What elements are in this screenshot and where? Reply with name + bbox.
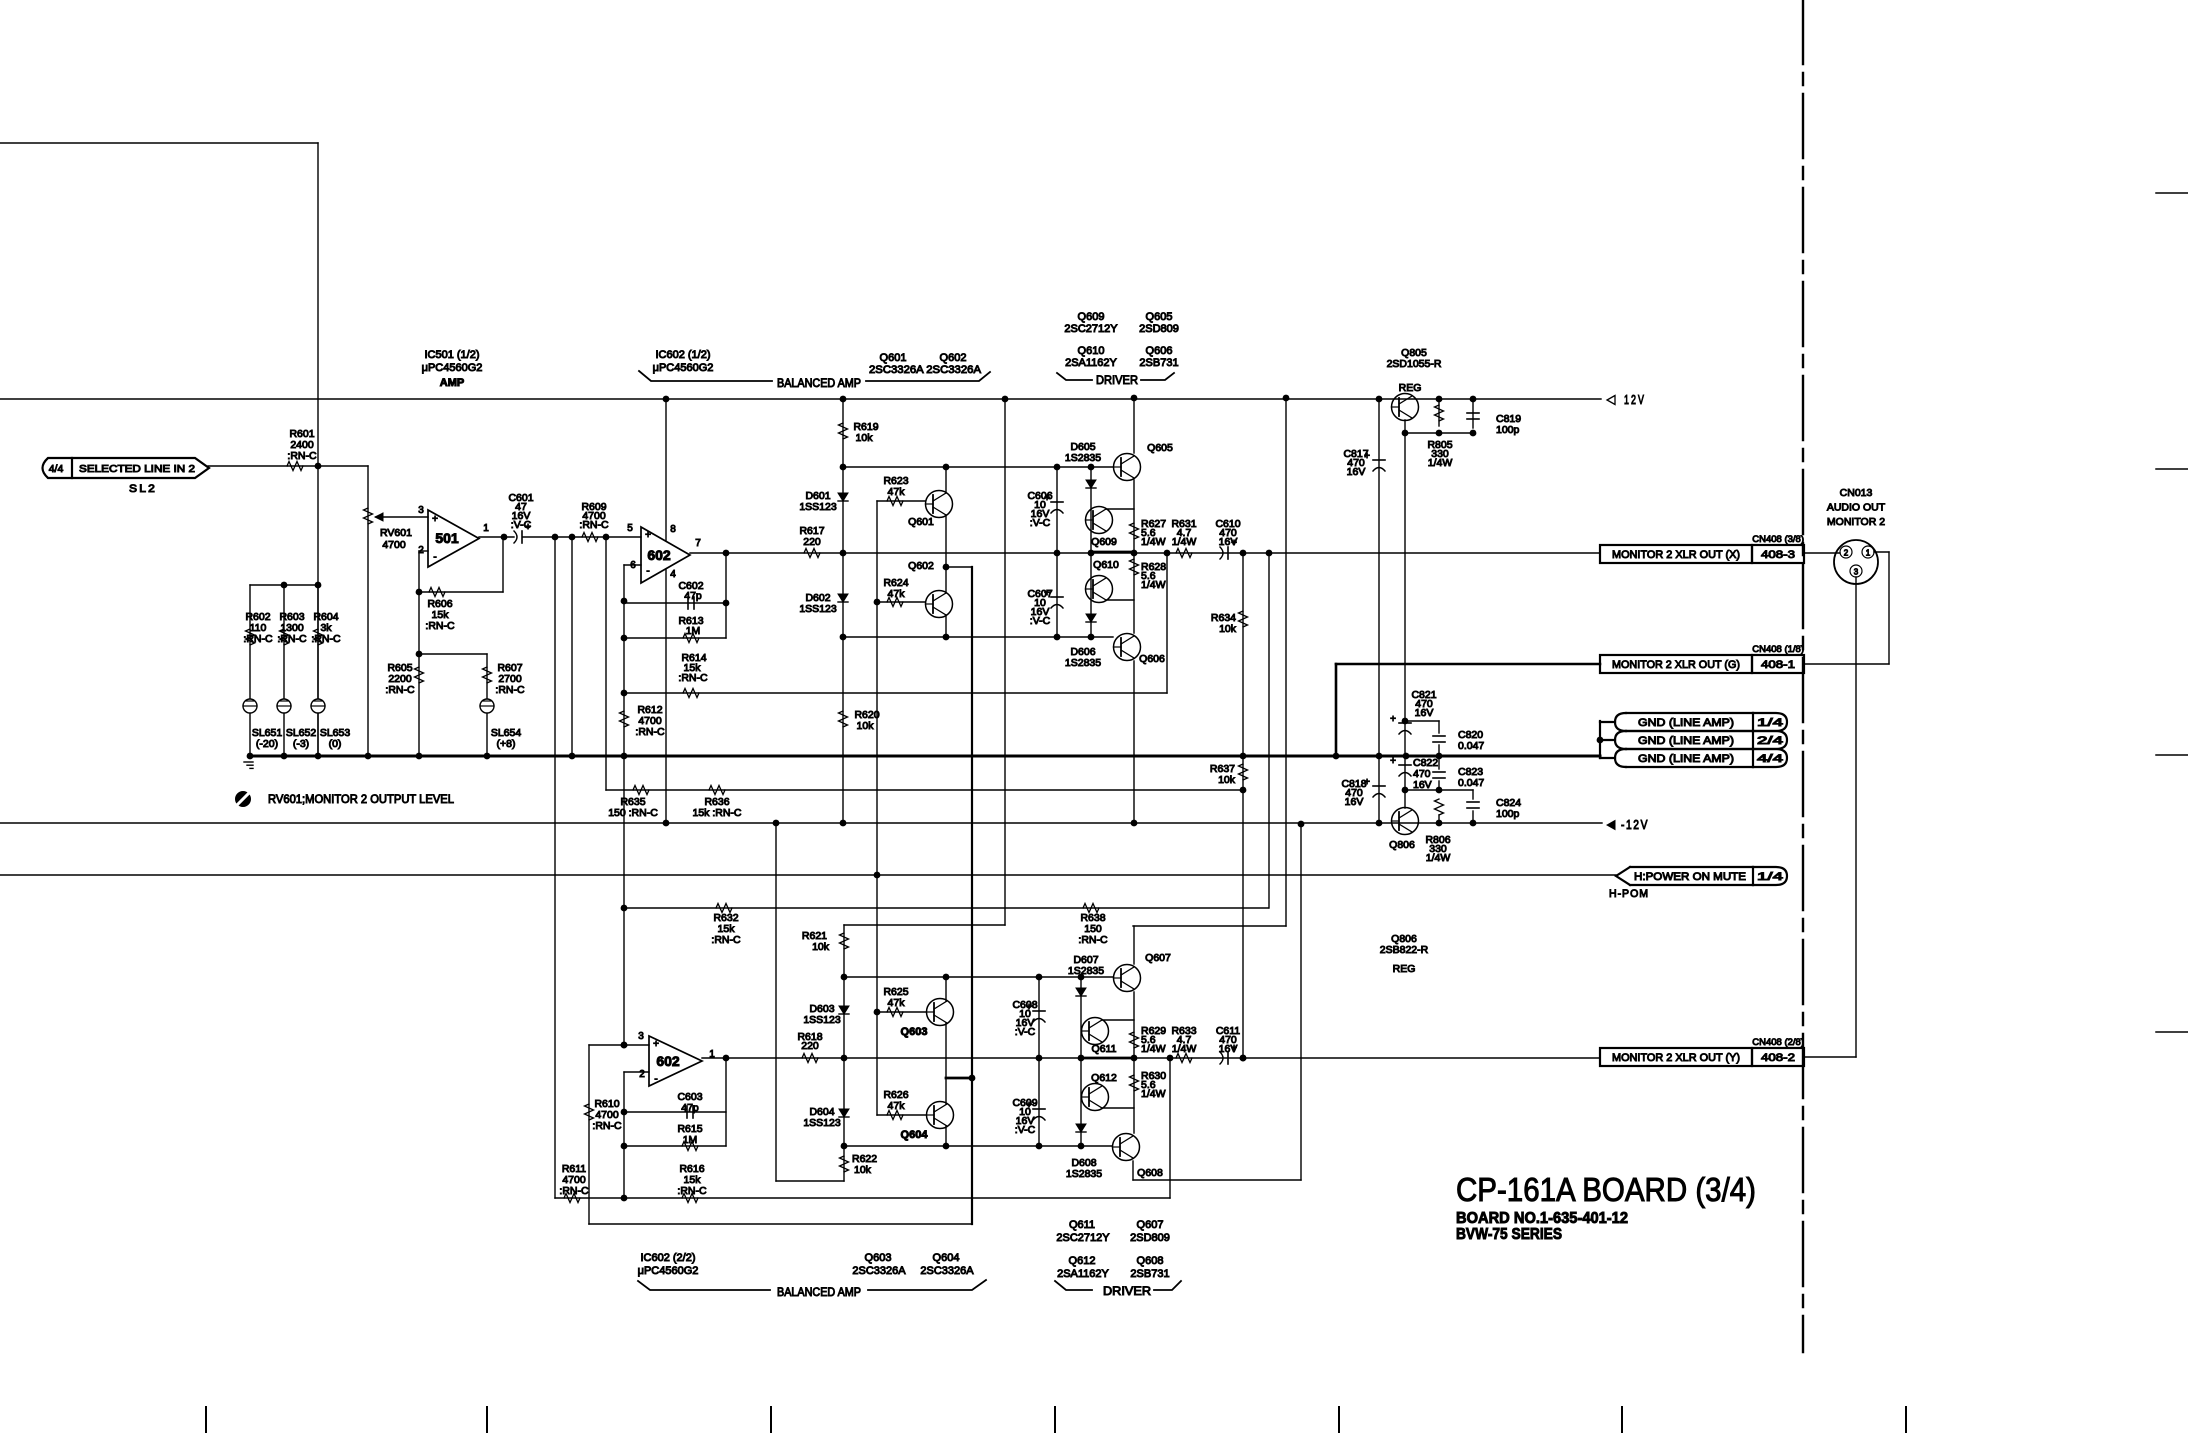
svg-text:47p: 47p — [681, 1102, 699, 1114]
svg-text:100p: 100p — [1496, 808, 1520, 820]
svg-text::V-C: :V-C — [1030, 615, 1051, 627]
svg-text::RN-C: :RN-C — [592, 1120, 622, 1132]
svg-text:2/4: 2/4 — [1757, 735, 1783, 747]
svg-text::RN-C: :RN-C — [559, 1185, 589, 1197]
svg-text::RN-C: :RN-C — [711, 934, 741, 946]
svg-text:Q806: Q806 — [1389, 839, 1415, 851]
svg-text:16V: 16V — [1413, 779, 1432, 791]
svg-text:+: + — [1231, 1043, 1237, 1054]
svg-text:+: + — [1231, 538, 1237, 549]
svg-text:0.047: 0.047 — [1458, 777, 1484, 789]
svg-text:AMP: AMP — [440, 377, 464, 389]
svg-text:+: + — [432, 514, 438, 525]
svg-text:(0): (0) — [329, 738, 342, 750]
svg-text::RN-C: :RN-C — [495, 684, 525, 696]
svg-text:1/4W: 1/4W — [1141, 1088, 1166, 1100]
svg-text:Q607: Q607 — [1137, 1219, 1164, 1231]
svg-text:+: + — [645, 530, 651, 541]
svg-text:1S2835: 1S2835 — [1066, 1168, 1102, 1180]
svg-text:2SC2712Y: 2SC2712Y — [1056, 1232, 1110, 1244]
svg-text:2: 2 — [1844, 549, 1849, 558]
svg-text:Q601: Q601 — [880, 352, 907, 364]
svg-text:GND (LINE AMP): GND (LINE AMP) — [1638, 717, 1734, 729]
svg-text:2SD1055-R: 2SD1055-R — [1387, 358, 1442, 370]
svg-text::RN-C: :RN-C — [425, 620, 455, 632]
svg-text::V-C: :V-C — [1030, 517, 1051, 529]
svg-text::RN-C: :RN-C — [385, 684, 415, 696]
svg-text:2SB731: 2SB731 — [1139, 357, 1178, 369]
svg-text:10k: 10k — [1218, 774, 1236, 786]
svg-text:12V: 12V — [1624, 392, 1646, 407]
svg-text:RV601: RV601 — [380, 527, 412, 539]
svg-text:10k: 10k — [1219, 623, 1237, 635]
svg-text:Q608: Q608 — [1137, 1167, 1163, 1179]
svg-text:CN013: CN013 — [1840, 487, 1873, 499]
svg-text:H-POM: H-POM — [1609, 888, 1649, 900]
svg-text:3: 3 — [638, 1031, 644, 1042]
svg-text:Q610: Q610 — [1093, 559, 1119, 571]
svg-text:16V: 16V — [1347, 466, 1366, 478]
svg-text:Q610: Q610 — [1078, 345, 1105, 357]
svg-text:1/4W: 1/4W — [1141, 536, 1166, 548]
svg-text:+: + — [1390, 756, 1396, 767]
svg-text:Q609: Q609 — [1078, 311, 1105, 323]
svg-text:1/4W: 1/4W — [1141, 579, 1166, 591]
svg-text:1: 1 — [483, 523, 489, 534]
svg-text:47k: 47k — [888, 997, 906, 1009]
svg-text:1M: 1M — [683, 1134, 698, 1146]
svg-text:2SD809: 2SD809 — [1139, 323, 1179, 335]
svg-text:1/4W: 1/4W — [1172, 1043, 1197, 1055]
svg-text:7: 7 — [695, 538, 701, 549]
svg-text:Q602: Q602 — [908, 560, 934, 572]
svg-text:CN408 (1/8): CN408 (1/8) — [1752, 644, 1804, 655]
svg-text:2SB822-R: 2SB822-R — [1380, 944, 1429, 956]
svg-text:1S2835: 1S2835 — [1068, 965, 1104, 977]
svg-text:MONITOR 2: MONITOR 2 — [1827, 516, 1885, 528]
svg-text:Q605: Q605 — [1147, 442, 1173, 454]
svg-text:16V: 16V — [1345, 796, 1364, 808]
svg-text:SELECTED LINE IN 2: SELECTED LINE IN 2 — [79, 463, 195, 475]
svg-text:Q611: Q611 — [1092, 1043, 1117, 1055]
svg-text:MONITOR 2 XLR OUT (X): MONITOR 2 XLR OUT (X) — [1612, 549, 1740, 561]
svg-text:μPC4560G2: μPC4560G2 — [653, 362, 714, 374]
svg-text:10k: 10k — [812, 941, 830, 953]
svg-text::RN-C: :RN-C — [635, 726, 665, 738]
svg-text:10k: 10k — [857, 720, 875, 732]
svg-text:2SC3326A: 2SC3326A — [920, 1265, 974, 1277]
svg-text:-: - — [433, 552, 436, 563]
svg-text:+: + — [1390, 714, 1396, 725]
svg-text:4/4: 4/4 — [1757, 753, 1783, 765]
svg-text:4/4: 4/4 — [49, 463, 64, 475]
svg-text:4: 4 — [670, 569, 676, 580]
svg-text::RN-C: :RN-C — [277, 633, 307, 645]
svg-text::V-C: :V-C — [1015, 1124, 1036, 1136]
svg-text::RN-C: :RN-C — [677, 1185, 707, 1197]
svg-text:BALANCED AMP: BALANCED AMP — [777, 1285, 861, 1299]
svg-text::RN-C: :RN-C — [243, 633, 273, 645]
svg-text:AUDIO OUT: AUDIO OUT — [1827, 502, 1886, 514]
svg-text::V-C: :V-C — [511, 519, 532, 531]
svg-text:8: 8 — [670, 524, 676, 535]
svg-text:Q601: Q601 — [908, 516, 934, 528]
svg-text:IC602 (2/2): IC602 (2/2) — [640, 1252, 695, 1264]
svg-text:RV601;MONITOR 2 OUTPUT LEVEL: RV601;MONITOR 2 OUTPUT LEVEL — [268, 792, 454, 806]
svg-text:220: 220 — [803, 536, 821, 548]
svg-text:47p: 47p — [684, 590, 702, 602]
svg-text:2SC3326A 2SC3326A: 2SC3326A 2SC3326A — [869, 364, 982, 376]
svg-text::RN-C: :RN-C — [678, 672, 708, 684]
svg-text:3: 3 — [1854, 568, 1859, 577]
svg-text:3: 3 — [418, 505, 424, 516]
svg-text:(+8): (+8) — [497, 738, 516, 750]
svg-text:47k: 47k — [888, 486, 906, 498]
svg-text:DRIVER: DRIVER — [1096, 373, 1138, 387]
svg-text:REG: REG — [1399, 382, 1422, 394]
svg-text:501: 501 — [435, 530, 459, 546]
svg-text:Q604: Q604 — [933, 1252, 960, 1264]
svg-text:1SS123: 1SS123 — [803, 1117, 841, 1129]
svg-text:1/4W: 1/4W — [1141, 1043, 1166, 1055]
svg-text:1/4: 1/4 — [1757, 717, 1783, 729]
svg-text:CN408 (2/8): CN408 (2/8) — [1752, 1037, 1804, 1048]
svg-text:μPC4560G2: μPC4560G2 — [638, 1265, 699, 1277]
svg-text:Q604: Q604 — [901, 1129, 929, 1141]
svg-text:Q603: Q603 — [901, 1026, 928, 1038]
svg-text:0.047: 0.047 — [1458, 740, 1484, 752]
svg-text:1S2835: 1S2835 — [1065, 657, 1101, 669]
svg-text:16V: 16V — [1415, 707, 1434, 719]
svg-text:5: 5 — [627, 523, 633, 534]
svg-text:100p: 100p — [1496, 424, 1520, 436]
svg-text:H:POWER ON MUTE: H:POWER ON MUTE — [1634, 871, 1746, 883]
svg-text:1/4W: 1/4W — [1172, 536, 1197, 548]
svg-text::RN-C: :RN-C — [579, 519, 609, 531]
svg-text:1SS123: 1SS123 — [803, 1014, 841, 1026]
svg-text:IC602 (1/2): IC602 (1/2) — [655, 349, 710, 361]
svg-text:47k: 47k — [888, 1100, 906, 1112]
svg-text:MONITOR 2 XLR OUT (Y): MONITOR 2 XLR OUT (Y) — [1612, 1052, 1740, 1064]
svg-text:150 :RN-C: 150 :RN-C — [608, 807, 658, 819]
svg-text:1S2835: 1S2835 — [1065, 452, 1101, 464]
svg-text:BVW-75 SERIES: BVW-75 SERIES — [1456, 1226, 1562, 1243]
svg-text:1SS123: 1SS123 — [799, 603, 837, 615]
svg-text:220: 220 — [801, 1040, 819, 1052]
svg-text:BALANCED AMP: BALANCED AMP — [777, 376, 861, 390]
svg-text:2SA1162Y: 2SA1162Y — [1057, 1268, 1109, 1280]
svg-text:GND (LINE AMP): GND (LINE AMP) — [1638, 735, 1734, 747]
svg-text:Q606: Q606 — [1146, 345, 1173, 357]
svg-text:Q612: Q612 — [1069, 1255, 1096, 1267]
svg-text:2SC3326A: 2SC3326A — [852, 1265, 906, 1277]
svg-text:CP-161A BOARD (3/4): CP-161A BOARD (3/4) — [1456, 1171, 1756, 1208]
svg-text:408-1: 408-1 — [1761, 659, 1795, 671]
svg-text:Q607: Q607 — [1145, 952, 1171, 964]
svg-text:BOARD NO.1-635-401-12: BOARD NO.1-635-401-12 — [1456, 1210, 1628, 1227]
svg-text:10k: 10k — [854, 1164, 872, 1176]
svg-text::RN-C: :RN-C — [1078, 934, 1108, 946]
svg-text:IC501 (1/2): IC501 (1/2) — [424, 349, 479, 361]
svg-text:1M: 1M — [686, 625, 701, 637]
svg-text:2SB731: 2SB731 — [1130, 1268, 1169, 1280]
svg-text:SL2: SL2 — [129, 483, 157, 495]
svg-text::RN-C: :RN-C — [311, 633, 341, 645]
svg-text:408-2: 408-2 — [1761, 1052, 1795, 1064]
svg-text:47k: 47k — [888, 588, 906, 600]
svg-text:1SS123: 1SS123 — [799, 501, 837, 513]
svg-text:Q608: Q608 — [1137, 1255, 1164, 1267]
svg-text:+: + — [653, 1039, 659, 1050]
svg-text::V-C: :V-C — [1015, 1026, 1036, 1038]
svg-text:408-3: 408-3 — [1761, 549, 1795, 561]
svg-text:Q612: Q612 — [1091, 1072, 1117, 1084]
svg-text:1: 1 — [1866, 549, 1871, 558]
svg-text:Q606: Q606 — [1139, 653, 1165, 665]
svg-text:(-20): (-20) — [256, 738, 278, 750]
svg-text:GND (LINE AMP): GND (LINE AMP) — [1638, 753, 1734, 765]
svg-text:MONITOR 2 XLR OUT (G): MONITOR 2 XLR OUT (G) — [1612, 659, 1740, 671]
svg-text:-: - — [646, 566, 649, 577]
svg-text:2SC2712Y: 2SC2712Y — [1064, 323, 1118, 335]
svg-text:2SA1162Y: 2SA1162Y — [1065, 357, 1117, 369]
svg-text:μPC4560G2: μPC4560G2 — [422, 362, 483, 374]
svg-text:CN408 (3/8): CN408 (3/8) — [1752, 534, 1804, 545]
svg-text:Q605: Q605 — [1146, 311, 1173, 323]
svg-text:1/4: 1/4 — [1757, 871, 1783, 883]
svg-text:1/4W: 1/4W — [1426, 852, 1451, 864]
svg-text:-12V: -12V — [1621, 817, 1649, 832]
svg-text:10k: 10k — [856, 432, 874, 444]
svg-text:DRIVER: DRIVER — [1103, 1284, 1151, 1298]
svg-text:REG: REG — [1393, 963, 1416, 975]
svg-text:1/4W: 1/4W — [1428, 457, 1453, 469]
svg-text:Q603: Q603 — [865, 1252, 892, 1264]
svg-text::RN-C: :RN-C — [287, 450, 317, 462]
svg-text:-: - — [654, 1074, 657, 1085]
svg-text:Q602: Q602 — [940, 352, 967, 364]
svg-text:602: 602 — [647, 547, 671, 563]
svg-text:15k :RN-C: 15k :RN-C — [692, 807, 741, 819]
svg-text:4700: 4700 — [382, 539, 406, 551]
svg-text:2: 2 — [639, 1069, 645, 1080]
svg-text:Q611: Q611 — [1069, 1219, 1095, 1231]
svg-text:(-3): (-3) — [293, 738, 309, 750]
svg-text:Q609: Q609 — [1091, 536, 1117, 548]
svg-text:2SD809: 2SD809 — [1130, 1232, 1170, 1244]
svg-text:602: 602 — [656, 1053, 680, 1069]
